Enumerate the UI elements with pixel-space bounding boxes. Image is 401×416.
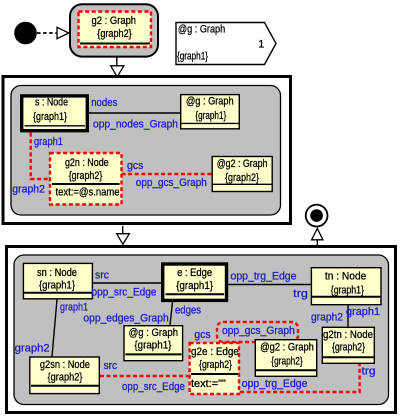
wire created link s to g2n (red dashed) — [31, 133, 50, 179]
svg-text:text:=@s.name: text:=@s.name — [56, 187, 120, 199]
svg-text:{graph1}: {graph1} — [195, 110, 226, 122]
svg-text:{graph1}: {graph1} — [177, 51, 208, 63]
node @g : Graph (middle) — [181, 95, 240, 129]
svg-text:g2tn : Node: g2tn : Node — [323, 329, 373, 341]
svg-text:1: 1 — [258, 39, 264, 51]
svg-text:{graph2}: {graph2} — [97, 28, 132, 40]
node g2n : Node (created) — [50, 153, 122, 205]
svg-text:{graph2}: {graph2} — [225, 172, 259, 184]
svg-text:{graph1}: {graph1} — [331, 285, 364, 297]
svg-text:opp_nodes_Graph: opp_nodes_Graph — [93, 119, 178, 131]
svg-text:tn : Node: tn : Node — [325, 270, 366, 282]
signal shape @g : Graph — [176, 23, 276, 65]
svg-text:opp_trg_Edge: opp_trg_Edge — [231, 271, 297, 283]
svg-text:{graph2}: {graph2} — [48, 372, 83, 384]
svg-text:@g : Graph: @g : Graph — [186, 96, 234, 108]
svg-text:@g2 : Graph: @g2 : Graph — [217, 158, 268, 170]
bottom gray rounded panel — [14, 255, 389, 405]
svg-text:trg: trg — [362, 366, 376, 378]
svg-text:{graph1}: {graph1} — [134, 340, 171, 352]
svg-text:opp_edges_Graph: opp_edges_Graph — [83, 313, 168, 325]
wire created gcs link frame (red dashed) — [217, 322, 298, 342]
svg-text:{graph2}: {graph2} — [199, 359, 232, 371]
wire nodes link s to @g — [89, 112, 180, 114]
wire link sn to g2sn — [52, 300, 57, 357]
wire created src link g2sn to g2e (red dashed) — [100, 375, 189, 377]
activity g2 rounded container — [70, 4, 158, 56]
arrowhead down into middle box — [111, 66, 124, 77]
svg-text:@g2 : Graph: @g2 : Graph — [260, 342, 314, 354]
svg-text:@g : Graph: @g : Graph — [129, 327, 178, 339]
node @g2 : Graph (middle) — [212, 157, 272, 192]
svg-text:edges: edges — [175, 305, 201, 317]
node g2sn : Node — [30, 357, 100, 394]
initial state — [14, 22, 37, 45]
svg-text:{graph2}: {graph2} — [69, 170, 103, 182]
svg-text:opp_src_Edge: opp_src_Edge — [92, 287, 157, 299]
svg-text:src: src — [95, 270, 109, 282]
svg-text:gcs: gcs — [194, 329, 211, 341]
wire stub middle box to bottom box — [122, 226, 124, 234]
arrowhead down into bottom box — [117, 234, 130, 245]
svg-text:gcs: gcs — [127, 160, 144, 172]
svg-text:opp_trg_Edge: opp_trg_Edge — [242, 378, 308, 390]
wire created link g2n to @g2 (red dashed) — [122, 173, 212, 175]
svg-text:opp_src_Edge: opp_src_Edge — [122, 381, 185, 393]
svg-text:{graph1}: {graph1} — [176, 280, 213, 292]
final state — [306, 205, 328, 227]
wire edges link e to @g — [170, 302, 173, 325]
svg-text:nodes: nodes — [91, 97, 118, 109]
svg-text:opp_gcs_Graph: opp_gcs_Graph — [222, 325, 295, 337]
svg-text:{graph1}: {graph1} — [39, 280, 75, 292]
svg-text:{graph2}: {graph2} — [271, 356, 303, 368]
arrowhead up to final state — [312, 229, 323, 240]
svg-text:g2n : Node: g2n : Node — [65, 157, 109, 169]
svg-text:{graph2}: {graph2} — [332, 342, 365, 354]
svg-text:g2 : Graph: g2 : Graph — [92, 15, 137, 27]
wire created trg link g2e to g2tn (red dashed) — [240, 364, 360, 392]
svg-text:sn : Node: sn : Node — [37, 267, 77, 279]
svg-text:graph2: graph2 — [12, 184, 45, 196]
svg-text:{graph1}: {graph1} — [33, 111, 67, 123]
middle gray rounded panel — [11, 86, 281, 216]
svg-text:opp_gcs_Graph: opp_gcs_Graph — [136, 177, 207, 189]
bottom box outer frame — [7, 247, 396, 413]
node tn : Node — [311, 268, 381, 305]
svg-text:graph1: graph1 — [34, 136, 63, 148]
svg-text:src: src — [104, 360, 118, 372]
node g2 : Graph (created) — [79, 12, 152, 48]
node sn : Node — [23, 263, 92, 298]
svg-text:text:="": text:="" — [191, 378, 226, 390]
svg-text:graph2: graph2 — [15, 343, 50, 355]
svg-text:trg: trg — [293, 288, 308, 300]
wire dashed transition — [37, 32, 57, 34]
svg-text:e : Edge: e : Edge — [177, 267, 212, 279]
svg-text:s : Node: s : Node — [35, 97, 68, 109]
wire trg link e to tn — [228, 284, 311, 286]
node @g : Graph (bottom) — [124, 326, 183, 361]
node e : Edge (bound, thick) — [163, 264, 227, 300]
node g2e : Edge (created) — [190, 343, 239, 394]
svg-text:g2sn : Node: g2sn : Node — [40, 359, 90, 371]
wire stub bottom box to final arrow — [316, 240, 318, 246]
node @g2 : Graph (bottom) — [255, 340, 316, 377]
node g2tn : Node — [322, 327, 374, 363]
middle box outer frame — [3, 77, 291, 224]
svg-text:graph2: graph2 — [311, 312, 343, 324]
svg-text:g2e : Edge: g2e : Edge — [191, 346, 239, 358]
wire stub to middle box — [116, 57, 118, 66]
svg-text:graph1: graph1 — [346, 306, 380, 318]
svg-text:@g : Graph: @g : Graph — [178, 24, 225, 36]
node s : Node (bound, thick) — [22, 96, 88, 131]
arrowhead right — [57, 27, 69, 38]
wire src link sn to e — [93, 282, 161, 284]
wire link tn to g2tn — [347, 305, 349, 326]
